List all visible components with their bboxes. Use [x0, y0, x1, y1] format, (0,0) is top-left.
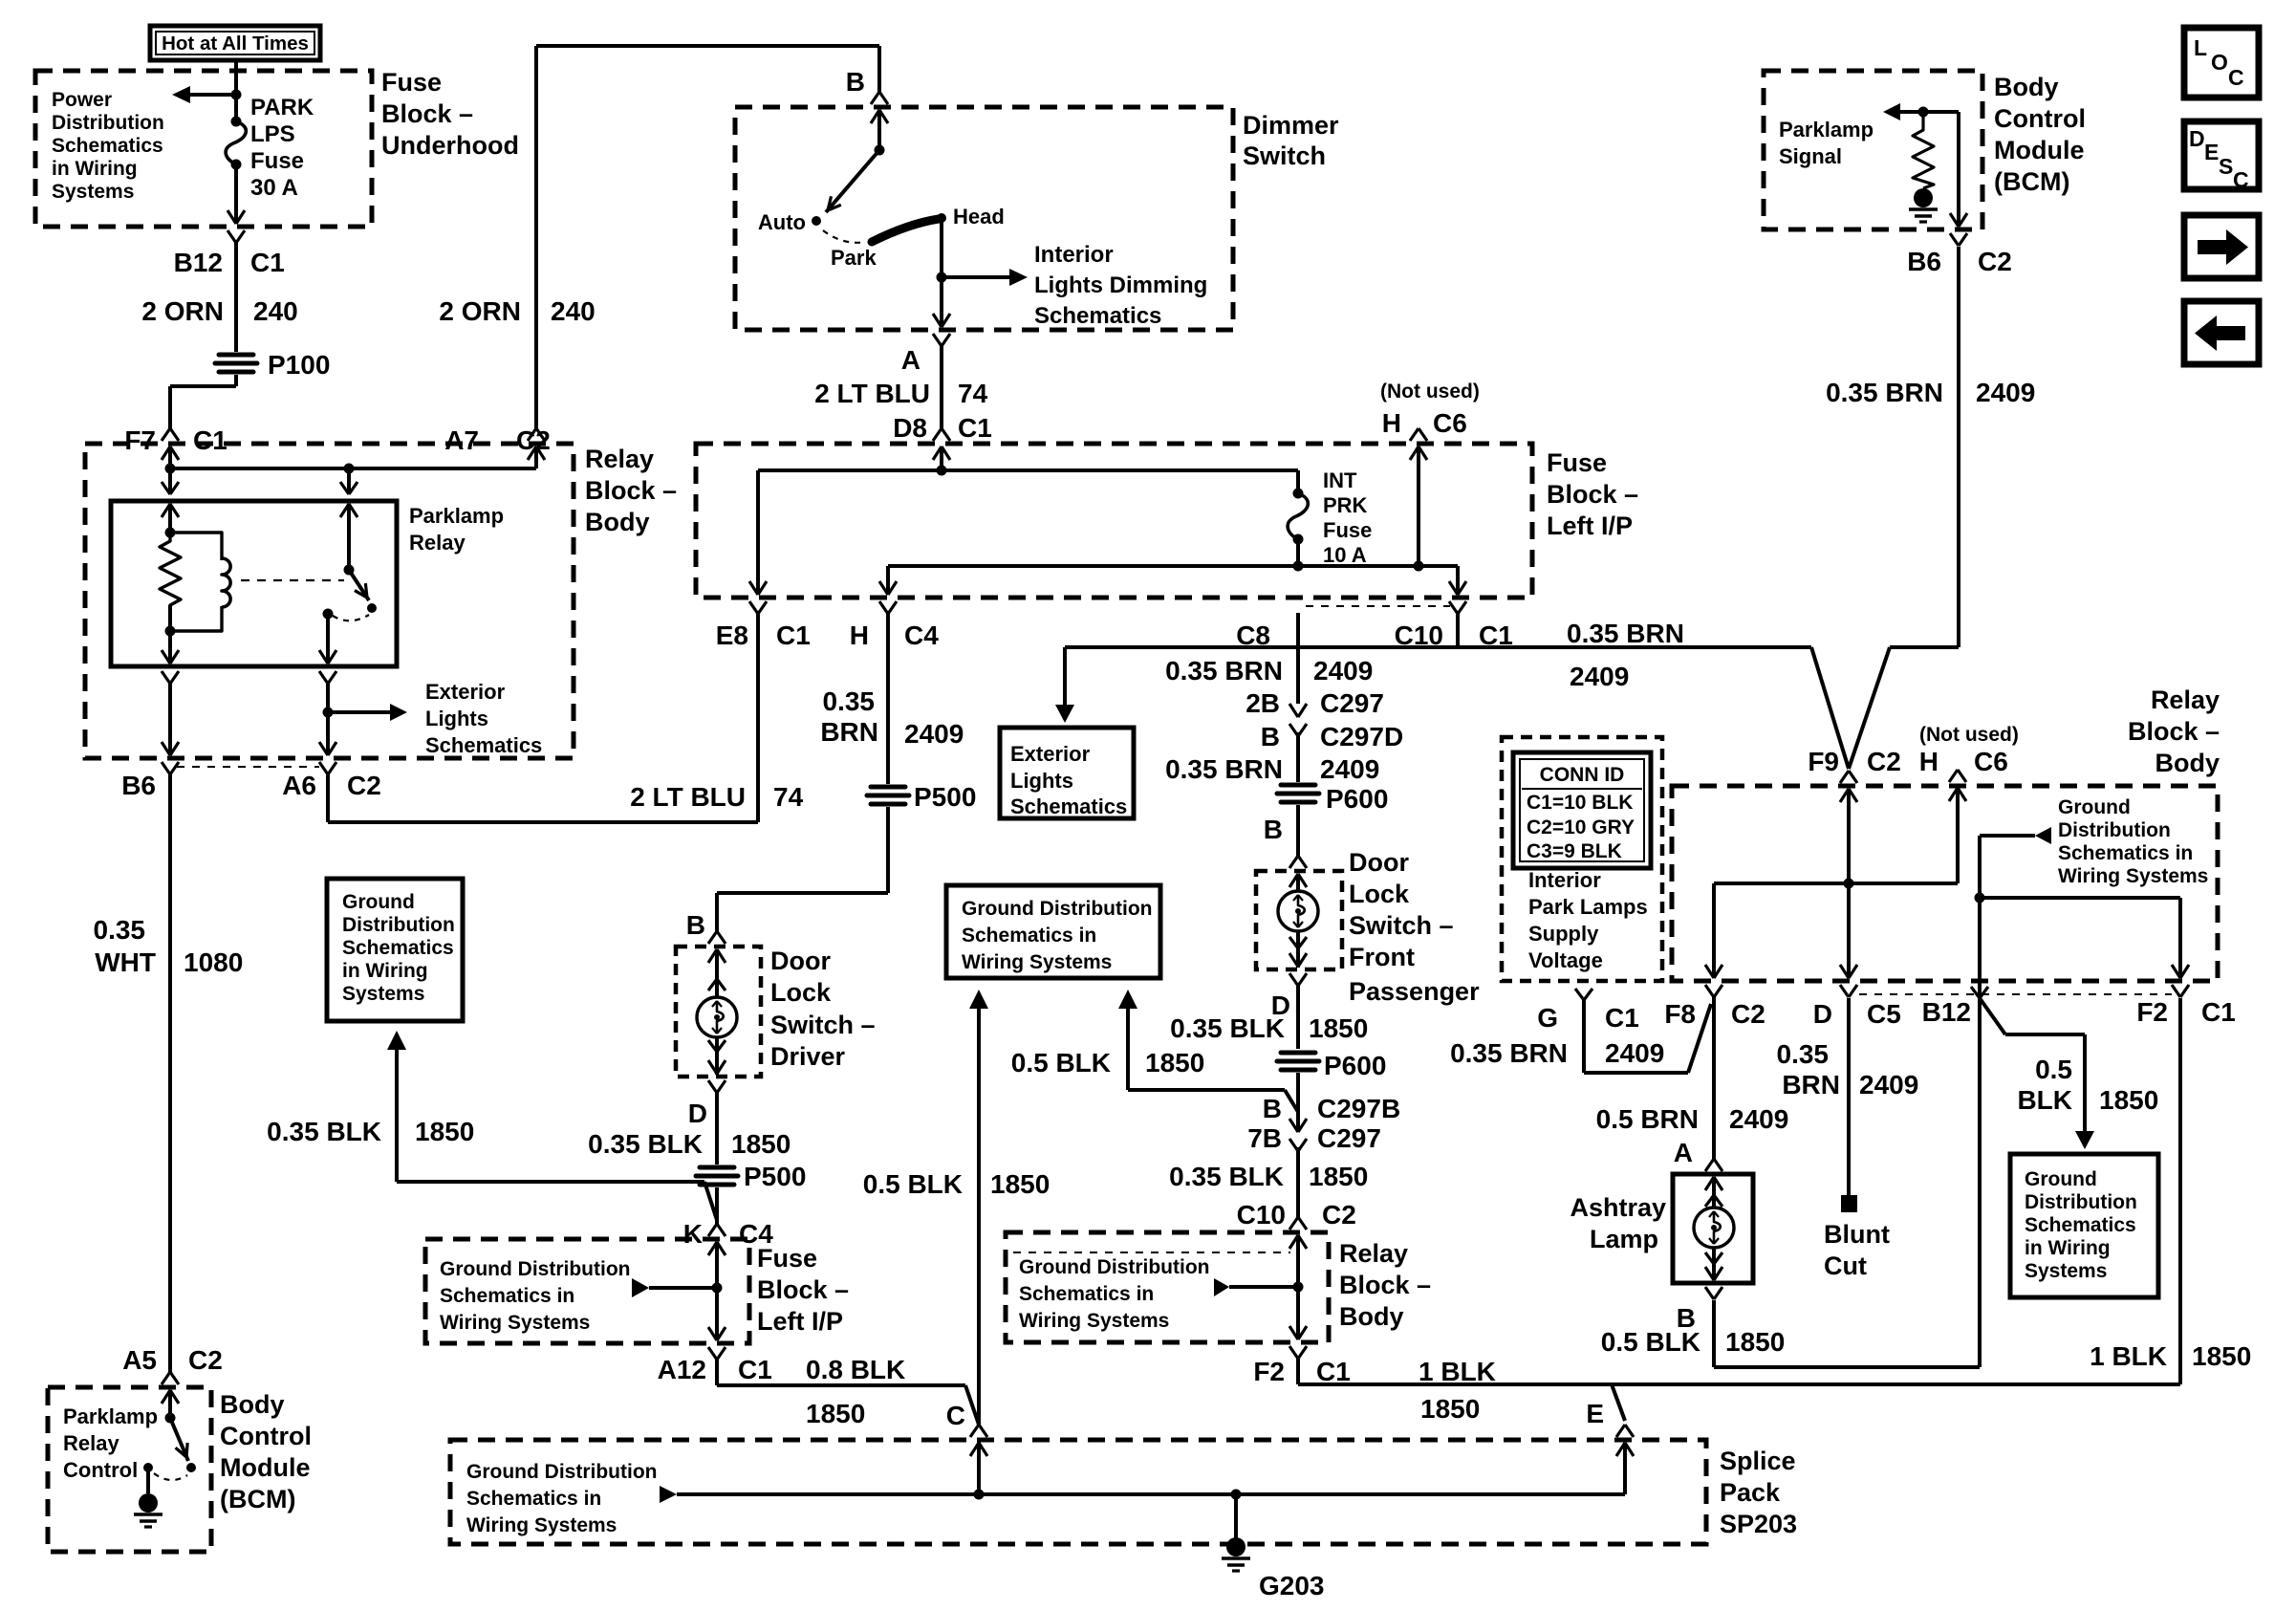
svg-text:Body: Body — [1994, 73, 2059, 101]
ground BCM — [146, 1468, 150, 1493]
svg-text:Distribution: Distribution — [2025, 1191, 2137, 1213]
svg-text:PARK: PARK — [250, 95, 314, 120]
wire A6 out — [326, 712, 330, 740]
node relay feed left — [165, 464, 176, 474]
svg-text:Fuse: Fuse — [1323, 518, 1372, 542]
svg-text:PRK: PRK — [1323, 493, 1368, 517]
connector into relay coil — [168, 468, 172, 494]
svg-text:E8: E8 — [716, 620, 748, 650]
svg-text:S: S — [2219, 154, 2233, 179]
svg-text:Park Lamps: Park Lamps — [1528, 895, 1648, 919]
svg-text:Passenger: Passenger — [1349, 977, 1480, 1006]
svg-text:Ground: Ground — [342, 891, 415, 913]
svg-text:Supply: Supply — [1528, 922, 1599, 946]
svg-text:H: H — [850, 620, 869, 650]
connector D8 C1 — [933, 428, 942, 441]
ground G203 — [1234, 1494, 1238, 1539]
wire 2 ORN 240 — [234, 243, 238, 352]
svg-text:B: B — [1263, 1094, 1282, 1123]
svg-text:Left I/P: Left I/P — [757, 1307, 843, 1336]
wire hot feed — [234, 60, 238, 121]
node ground junction F2 — [1293, 1282, 1304, 1293]
svg-text:Driver: Driver — [770, 1042, 846, 1071]
wire bus lower — [1296, 539, 1300, 566]
svg-text:C1: C1 — [776, 620, 811, 650]
svg-text:O: O — [2211, 50, 2228, 75]
wire 0.5 BRN 2409 ashtray feed — [1712, 997, 1716, 1160]
wire 2 LT BLU 74 link — [326, 773, 330, 822]
wire coil return lower — [168, 684, 172, 740]
wire relay top bus — [170, 467, 536, 470]
svg-text:10 A: 10 A — [1323, 543, 1367, 567]
svg-text:SP203: SP203 — [1720, 1510, 1797, 1538]
wire 0.5 BLK 1850 to splice — [977, 1009, 981, 1425]
relay coil — [170, 533, 222, 560]
svg-text:H: H — [1919, 747, 1939, 776]
svg-text:1 BLK: 1 BLK — [2090, 1341, 2167, 1371]
thin connector face line right — [1859, 993, 2172, 995]
svg-text:A7: A7 — [444, 425, 479, 455]
svg-text:Body: Body — [220, 1390, 285, 1419]
svg-text:Schematics in: Schematics in — [1019, 1283, 1154, 1305]
node relay coil tap — [344, 464, 355, 474]
wire C inside — [977, 1442, 981, 1494]
svg-text:2 LT BLU: 2 LT BLU — [630, 782, 746, 812]
svg-text:(BCM): (BCM) — [1994, 167, 2069, 196]
svg-text:0.5 BLK: 0.5 BLK — [1601, 1327, 1700, 1357]
svg-text:Control: Control — [63, 1458, 138, 1482]
icon arrow right — [2184, 215, 2259, 278]
svg-text:C1: C1 — [250, 248, 285, 277]
icon arrow left — [2184, 301, 2259, 364]
relay block body right box — [1672, 786, 2218, 981]
node C junction — [974, 1490, 985, 1500]
svg-text:Exterior: Exterior — [1010, 742, 1091, 766]
wiper Park-Head thick arc — [872, 219, 939, 242]
node switch pivot relay — [344, 565, 355, 576]
wire C10 0.35 BRN 2409 run — [1456, 613, 1460, 647]
connector H C6 not used — [1410, 428, 1419, 441]
svg-text:Relay: Relay — [409, 531, 466, 555]
wire B inside — [877, 124, 881, 150]
svg-text:1850: 1850 — [2192, 1341, 2251, 1371]
svg-text:C10: C10 — [1237, 1200, 1286, 1230]
connector F9 C2 — [1840, 771, 1849, 783]
svg-text:B: B — [686, 910, 705, 940]
svg-text:Body: Body — [1339, 1302, 1404, 1331]
thin connector face line — [177, 766, 319, 768]
svg-text:LPS: LPS — [250, 121, 295, 147]
svg-text:Power: Power — [52, 89, 112, 111]
svg-text:Parklamp: Parklamp — [63, 1404, 158, 1428]
svg-text:Fuse: Fuse — [381, 68, 442, 97]
svg-text:Switch –: Switch – — [770, 1011, 876, 1039]
svg-text:H: H — [1382, 408, 1401, 438]
wire fuse to B12 — [234, 164, 238, 224]
svg-text:74: 74 — [958, 379, 988, 408]
svg-text:2409: 2409 — [1313, 656, 1373, 686]
svg-text:0.35 BLK: 0.35 BLK — [1170, 1013, 1285, 1043]
svg-text:C6: C6 — [1433, 408, 1467, 438]
svg-text:Schematics in: Schematics in — [962, 925, 1096, 947]
svg-text:Signal: Signal — [1779, 144, 1842, 168]
connector H C4 — [879, 581, 888, 595]
svg-text:Ground: Ground — [2058, 796, 2131, 818]
icon DESC — [2184, 121, 2259, 189]
svg-text:C1: C1 — [1605, 1003, 1639, 1033]
svg-text:Control: Control — [1994, 104, 2086, 133]
wire F2 inside — [1296, 1252, 1300, 1337]
arrow ground ref to wire — [632, 1278, 649, 1297]
svg-text:Systems: Systems — [52, 181, 134, 203]
svg-text:Wiring Systems: Wiring Systems — [440, 1312, 590, 1334]
svg-text:0.35: 0.35 — [94, 915, 146, 945]
svg-text:Wiring Systems: Wiring Systems — [1019, 1310, 1169, 1332]
svg-text:1850: 1850 — [2099, 1085, 2158, 1115]
svg-text:C6: C6 — [1974, 747, 2008, 776]
fuse block left IP lower box — [425, 1239, 749, 1343]
svg-text:7B: 7B — [1247, 1123, 1282, 1153]
connector D C5 — [1840, 965, 1849, 978]
svg-text:G203: G203 — [1259, 1571, 1325, 1600]
icon LOC — [2184, 28, 2259, 98]
svg-text:74: 74 — [773, 782, 804, 812]
ground distribution box right — [2010, 1154, 2158, 1297]
svg-text:Wiring Systems: Wiring Systems — [466, 1514, 617, 1536]
lamp ashtray — [1712, 1191, 1716, 1208]
resistor relay — [160, 533, 181, 631]
svg-text:Splice: Splice — [1720, 1447, 1796, 1475]
relay block body lower box — [1006, 1232, 1329, 1342]
svg-text:Schematics: Schematics — [425, 733, 542, 757]
wire V to F9 right leg — [1849, 647, 1890, 769]
connector B6 exit — [162, 742, 170, 755]
svg-text:0.35: 0.35 — [1777, 1039, 1830, 1069]
svg-text:Switch –: Switch – — [1349, 911, 1454, 940]
svg-text:E: E — [1586, 1399, 1604, 1428]
wire P100 to F7 — [234, 375, 238, 386]
wire C10 drop — [1456, 566, 1460, 593]
svg-text:Door: Door — [1349, 848, 1409, 877]
svg-text:Block –: Block – — [585, 476, 677, 505]
svg-text:Systems: Systems — [2025, 1260, 2107, 1282]
node junction — [231, 90, 242, 100]
svg-text:WHT: WHT — [95, 947, 156, 977]
svg-text:B12: B12 — [1922, 997, 1971, 1027]
wire F8 drop — [1712, 883, 1716, 966]
splice P500 — [871, 785, 905, 790]
connector relay out — [319, 650, 328, 664]
svg-text:2409: 2409 — [1859, 1070, 1918, 1099]
wire 0.8 BLK 1850 — [715, 1360, 719, 1385]
connector F7 C1 — [162, 428, 170, 441]
node coil bottom — [165, 626, 176, 637]
wire switch feed — [347, 504, 351, 570]
svg-text:Relay: Relay — [1339, 1239, 1408, 1268]
contact Auto — [812, 216, 821, 226]
svg-text:C4: C4 — [904, 620, 939, 650]
svg-text:2 ORN: 2 ORN — [439, 296, 521, 326]
thin connector face line — [1306, 605, 1450, 607]
connector A ashtray — [1705, 1159, 1714, 1171]
svg-text:C1: C1 — [193, 425, 227, 455]
arrow ground ref right — [1980, 834, 2035, 838]
ground distribution box left — [327, 879, 463, 1021]
svg-text:B: B — [846, 67, 865, 97]
svg-text:(BCM): (BCM) — [220, 1485, 295, 1513]
svg-text:2 LT BLU: 2 LT BLU — [814, 379, 930, 408]
wire 0.35 BRN G to F8 — [1582, 1000, 1586, 1073]
svg-text:Switch: Switch — [1243, 142, 1326, 170]
connector F2 C1 — [1289, 1326, 1298, 1339]
wire 1 BLK 1850 bus — [1296, 1359, 1300, 1384]
fuse PARK LPS 30A — [231, 117, 242, 127]
connector B ashtray — [1705, 1267, 1714, 1280]
svg-text:Schematics: Schematics — [2025, 1214, 2136, 1236]
connector B door lock driver — [708, 931, 717, 944]
wire K inside — [715, 1258, 719, 1337]
connector coil return — [162, 650, 170, 664]
arrow to interior lights dimming — [942, 275, 1009, 279]
svg-text:Block –: Block – — [1547, 480, 1638, 509]
svg-text:C2: C2 — [1867, 747, 1901, 776]
node BCM contact — [143, 1463, 153, 1472]
svg-text:INT: INT — [1323, 468, 1357, 492]
node fuse out — [1293, 561, 1304, 572]
svg-text:Module: Module — [220, 1453, 311, 1482]
svg-text:in Wiring: in Wiring — [342, 960, 428, 982]
svg-text:Exterior: Exterior — [425, 680, 506, 704]
svg-text:G: G — [1537, 1003, 1558, 1033]
svg-text:Underhood: Underhood — [381, 131, 519, 160]
svg-text:0.35 BRN: 0.35 BRN — [1165, 656, 1283, 686]
connector B12 right — [1971, 987, 1980, 998]
svg-text:2 ORN: 2 ORN — [141, 296, 224, 326]
svg-text:Distribution: Distribution — [2058, 819, 2171, 841]
svg-text:BRN: BRN — [1782, 1070, 1840, 1099]
svg-text:2409: 2409 — [1976, 378, 2035, 407]
svg-text:2409: 2409 — [1605, 1038, 1664, 1068]
svg-text:Front: Front — [1349, 943, 1415, 971]
BCM switch arm — [170, 1418, 188, 1461]
svg-text:Dimmer: Dimmer — [1243, 111, 1339, 140]
connector E8 C1 — [749, 581, 758, 595]
svg-text:C1: C1 — [2201, 997, 2236, 1027]
wire coil return — [168, 605, 172, 664]
svg-text:C297B: C297B — [1317, 1094, 1400, 1123]
wire P500 to door lock driver — [886, 807, 890, 893]
svg-text:L: L — [2194, 35, 2207, 60]
connector H C6 right not used — [1949, 770, 1958, 782]
svg-text:C5: C5 — [1867, 999, 1901, 1029]
body control module top box — [1764, 71, 1982, 229]
label Hot at All Times — [150, 26, 320, 60]
svg-text:Fuse: Fuse — [250, 148, 304, 174]
svg-text:2409: 2409 — [1320, 754, 1379, 784]
svg-text:Lamp: Lamp — [1590, 1225, 1658, 1253]
svg-text:F2: F2 — [1253, 1357, 1285, 1386]
wire H C4 drop — [886, 566, 890, 593]
svg-text:2409: 2409 — [1570, 662, 1629, 691]
fuse block underhood box — [35, 71, 372, 227]
svg-text:Lock: Lock — [1349, 880, 1410, 908]
svg-text:30 A: 30 A — [250, 175, 298, 201]
svg-text:B: B — [1264, 815, 1283, 844]
svg-text:Interior: Interior — [1528, 868, 1601, 892]
svg-text:Left I/P: Left I/P — [1547, 512, 1633, 540]
svg-text:Module: Module — [1994, 136, 2085, 164]
arrow ground ref splice — [660, 1486, 677, 1503]
svg-text:1850: 1850 — [1725, 1327, 1785, 1357]
door lock switch driver box — [676, 947, 761, 1077]
connector C splice pack — [970, 1425, 979, 1437]
connector D exit front passenger — [1289, 953, 1298, 967]
connector F2 C1 right — [2172, 965, 2180, 978]
conn id table — [1513, 752, 1651, 868]
wire 0.35 BLK 1850 ground ref — [395, 1050, 399, 1182]
svg-text:C2: C2 — [1322, 1200, 1356, 1230]
svg-text:Hot at All Times: Hot at All Times — [162, 33, 309, 54]
node ground junction A12 — [712, 1283, 723, 1294]
node coil top — [165, 528, 176, 538]
splice P600 — [1281, 783, 1315, 788]
splice P500 ground — [700, 1165, 734, 1170]
connector K C4 — [708, 1224, 717, 1236]
svg-text:Fuse: Fuse — [757, 1244, 817, 1273]
svg-text:P500: P500 — [744, 1162, 806, 1191]
dashed arc BCM switch — [154, 1473, 187, 1480]
arrow to exterior lights schematics — [328, 710, 390, 714]
svg-text:1850: 1850 — [1420, 1394, 1480, 1424]
wire relay output — [326, 614, 330, 664]
svg-text:BRN: BRN — [820, 717, 878, 747]
branch to splice pack E — [1612, 1384, 1625, 1421]
node BCM switch pivot — [165, 1413, 176, 1424]
svg-text:K: K — [683, 1219, 703, 1249]
svg-text:P500: P500 — [914, 782, 976, 812]
svg-text:0.5 BLK: 0.5 BLK — [863, 1169, 963, 1199]
svg-text:Voltage: Voltage — [1528, 948, 1603, 972]
svg-text:1 BLK: 1 BLK — [1419, 1357, 1496, 1386]
connector C297 2B-B — [1289, 704, 1298, 717]
wire to dimmer switch B — [877, 46, 881, 92]
node bus1 — [937, 466, 947, 476]
node switch pivot — [875, 145, 885, 156]
body control module box lower — [48, 1387, 211, 1552]
wire BCM out — [1957, 112, 1960, 212]
svg-text:C2: C2 — [188, 1345, 223, 1375]
svg-text:in Wiring: in Wiring — [2025, 1237, 2111, 1259]
connector G C1 — [1575, 989, 1584, 1000]
svg-text:Wiring Systems: Wiring Systems — [2058, 865, 2208, 887]
wire H C6 inside — [1949, 788, 1958, 801]
door lock switch front passenger box — [1256, 871, 1342, 969]
node G203 junction — [1231, 1490, 1242, 1500]
wire dimmer A out — [940, 277, 943, 327]
wire E inside — [1623, 1458, 1627, 1494]
svg-text:C1: C1 — [738, 1355, 772, 1384]
wire blunt cut — [1847, 998, 1851, 1195]
lamp front passenger — [1278, 891, 1318, 931]
svg-text:A: A — [901, 345, 921, 375]
svg-text:Distribution: Distribution — [342, 914, 455, 936]
wire to F2 inside — [1980, 896, 2180, 900]
node relay output contact — [323, 609, 334, 620]
svg-text:(Not used): (Not used) — [1919, 724, 2019, 746]
connector A6 C2 exit — [319, 742, 328, 755]
svg-text:2409: 2409 — [904, 719, 964, 749]
svg-text:P600: P600 — [1326, 784, 1388, 814]
wire bus upper — [758, 468, 1298, 472]
svg-text:B12: B12 — [174, 248, 223, 277]
svg-text:Interior: Interior — [1034, 242, 1114, 268]
wire to K C4 — [715, 1187, 719, 1225]
fuse block left IP box — [696, 444, 1532, 598]
node F9 bus — [1844, 879, 1854, 889]
svg-text:Lights Dimming: Lights Dimming — [1034, 272, 1207, 298]
connector A12 C1 — [708, 1327, 717, 1340]
svg-text:A: A — [1674, 1138, 1693, 1167]
svg-text:2B: 2B — [1245, 688, 1280, 718]
svg-text:0.35 BLK: 0.35 BLK — [588, 1129, 703, 1159]
relay block body box — [85, 444, 574, 758]
wire F9 through — [1847, 803, 1851, 966]
arrow to power distribution — [190, 93, 236, 97]
node ground bus right — [1975, 893, 1985, 903]
svg-text:C3=9 BLK: C3=9 BLK — [1527, 840, 1622, 862]
wire C8 0.35 BRN — [1296, 613, 1300, 704]
connector E splice pack — [1616, 1425, 1625, 1437]
svg-text:Relay: Relay — [585, 445, 654, 473]
svg-text:Cut: Cut — [1824, 1252, 1867, 1280]
svg-text:P600: P600 — [1324, 1051, 1386, 1080]
node exterior lights tap — [323, 708, 334, 718]
connector C297B 7B — [1289, 1119, 1298, 1132]
svg-text:0.5 BLK: 0.5 BLK — [1011, 1048, 1111, 1078]
ground ref wire 0.5 BLK to passenger — [1126, 1009, 1130, 1090]
svg-text:Relay: Relay — [2151, 686, 2220, 714]
wire head down — [940, 218, 943, 277]
svg-text:C: C — [946, 1401, 965, 1430]
svg-text:BLK: BLK — [2017, 1085, 2072, 1115]
svg-text:Body: Body — [2155, 749, 2220, 777]
svg-text:Wiring Systems: Wiring Systems — [962, 951, 1112, 973]
arrow parklamp signal — [1900, 110, 1959, 114]
wire 0.35 BLK to C10 — [1296, 1147, 1300, 1217]
ashtray lamp box — [1673, 1174, 1753, 1283]
svg-text:1850: 1850 — [1309, 1162, 1368, 1191]
conn id box — [1502, 737, 1662, 981]
svg-text:D8: D8 — [893, 413, 927, 443]
wire 0.35 BLK 1850 driver — [715, 1093, 719, 1165]
svg-text:Block –: Block – — [1339, 1271, 1431, 1299]
blunt cut terminal — [1841, 1195, 1857, 1212]
connector A7 C2 — [528, 428, 536, 441]
svg-text:1080: 1080 — [184, 947, 243, 977]
wire ground bus right — [1978, 836, 1982, 898]
svg-text:C1=10 BLK: C1=10 BLK — [1527, 792, 1633, 814]
node dimmer out — [937, 272, 947, 283]
svg-text:Schematics: Schematics — [1034, 303, 1161, 329]
svg-text:240: 240 — [253, 296, 298, 326]
svg-text:Head: Head — [953, 205, 1005, 229]
dashed contact arc — [333, 615, 369, 620]
wire 2 ORN right branch — [534, 46, 538, 430]
fuse INT PRK 10A — [1296, 470, 1300, 493]
svg-text:Schematics in: Schematics in — [466, 1488, 601, 1510]
wire to P600 — [1296, 732, 1300, 782]
svg-text:Ground Distribution: Ground Distribution — [440, 1258, 630, 1280]
